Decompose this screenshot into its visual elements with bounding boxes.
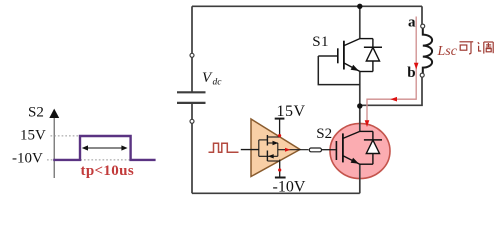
svg-text:S2: S2 — [28, 104, 44, 120]
svg-text:tp<10us: tp<10us — [81, 163, 135, 179]
svg-text:dc: dc — [213, 78, 223, 88]
svg-text:S1: S1 — [312, 34, 329, 50]
svg-text:-10V: -10V — [273, 179, 306, 196]
svg-text:b: b — [407, 65, 415, 81]
svg-text:S2: S2 — [316, 126, 332, 142]
svg-text:a: a — [408, 14, 416, 30]
svg-text:V: V — [202, 70, 213, 86]
svg-text:-10V: -10V — [12, 151, 43, 167]
svg-text:15V: 15V — [20, 127, 46, 143]
svg-text:15V: 15V — [277, 103, 306, 120]
svg-text:Lsc: Lsc — [437, 44, 458, 59]
